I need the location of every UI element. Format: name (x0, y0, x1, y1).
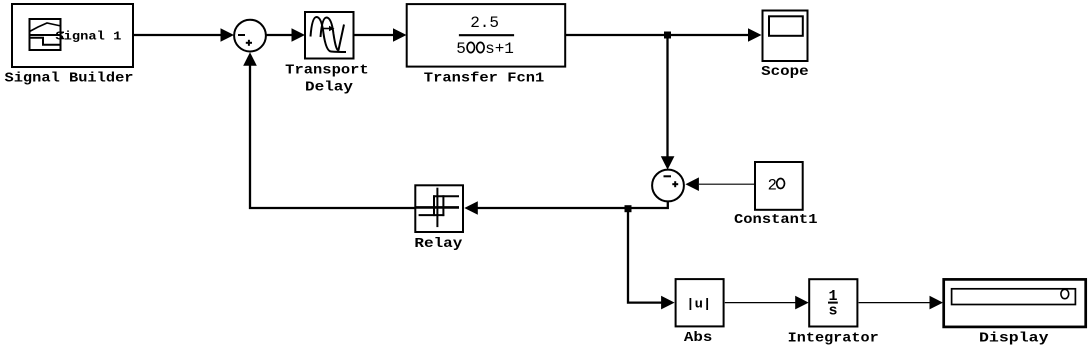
sum junction Sum2 (652, 170, 684, 202)
block Transfer Fcn (407, 4, 566, 67)
junction dot node B (625, 205, 632, 212)
svg-text:Display: Display (979, 330, 1049, 346)
svg-text:Scope: Scope (761, 64, 809, 80)
svg-text:Transfer Fcn1: Transfer Fcn1 (424, 71, 545, 87)
svg-text:Relay: Relay (414, 236, 463, 252)
svg-text:Integrator: Integrator (788, 331, 879, 347)
block Scope (763, 11, 808, 62)
block Constant1 (755, 162, 803, 210)
sum junction Sum1 (234, 20, 266, 52)
svg-text:Constant1: Constant1 (734, 212, 818, 228)
svg-text:2.5: 2.5 (470, 14, 499, 32)
svg-text:Abs: Abs (684, 331, 713, 346)
block Display (944, 279, 1086, 327)
svg-text:Signal 1: Signal 1 (55, 29, 121, 43)
junction dot node A (664, 32, 671, 39)
block Integrator (809, 279, 857, 326)
svg-text:Signal Builder: Signal Builder (5, 70, 134, 86)
svg-text:Delay: Delay (305, 80, 354, 96)
wire Constant1 to Sum2 (685, 177, 754, 191)
block Relay (415, 185, 463, 232)
wire Transport Delay to Transfer Fcn (355, 28, 407, 42)
block Abs (676, 279, 724, 326)
svg-text:Transport: Transport (285, 63, 369, 79)
wire Sum1 to Transport Delay (267, 28, 306, 42)
wire Sum2 output to Relay with branch to Abs (464, 201, 674, 309)
svg-text:2: 2 (768, 176, 777, 194)
svg-text:5: 5 (456, 40, 466, 58)
wire Relay to Sum1 feedback (243, 52, 415, 208)
wire Abs to Integrator (725, 296, 809, 310)
wire Transfer Fcn to Scope with branch (566, 28, 762, 170)
wire Integrator to Display (859, 296, 943, 310)
block Transport Delay (305, 12, 354, 59)
svg-text:s: s (829, 303, 838, 320)
svg-text:s+1: s+1 (485, 40, 514, 58)
svg-text:|u|: |u| (686, 297, 711, 312)
block Signal Builder (12, 4, 133, 67)
wire Signal Builder to Sum1 (134, 28, 234, 42)
